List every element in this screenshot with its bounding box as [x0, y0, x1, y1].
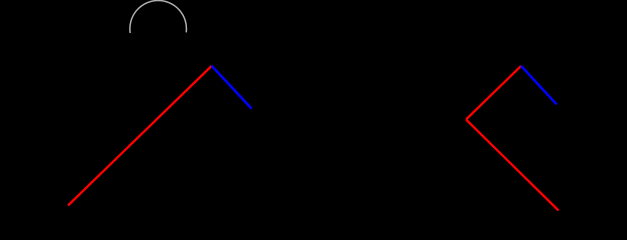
- wire: right long red segment: [466, 120, 559, 211]
- wire: right blue segment: [521, 66, 557, 105]
- wire: left red incline segment: [68, 66, 212, 206]
- wire: right short red segment: [466, 66, 521, 120]
- arc (gray loop, open at bottom, clipped at top edge): [130, 0, 187, 33]
- wire: left blue segment: [212, 66, 252, 109]
